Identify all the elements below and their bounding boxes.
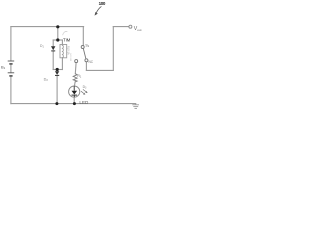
diode D2	[55, 71, 59, 75]
Vout terminal circle	[129, 25, 132, 28]
junction dot J1	[56, 25, 59, 28]
wire branch y40	[53, 39, 62, 41]
wire right loop bottom	[86, 69, 113, 71]
switch NO contact	[75, 60, 78, 63]
svg-text:D1: D1	[40, 44, 44, 49]
wire LED to bottom rail	[73, 97, 75, 103]
switch NC contact	[85, 59, 88, 62]
wire coil bottom lead	[61, 58, 63, 70]
switch S1 arm	[83, 49, 86, 59]
wire NO contact to R1	[74, 63, 77, 74]
wire D1 anode	[52, 40, 54, 46]
resistor R1	[73, 74, 77, 82]
junction dot J5	[73, 102, 76, 105]
ground	[132, 104, 139, 109]
switch S1 common terminal	[81, 46, 84, 49]
wire left rail upper	[10, 27, 12, 61]
wire D1 cathode down	[52, 51, 54, 70]
wire right loop vertical	[112, 27, 114, 71]
TIM leader curve	[63, 31, 68, 35]
wire NC contact down	[85, 62, 87, 71]
wire R1 to LED	[73, 82, 76, 86]
svg-text:S1: S1	[85, 43, 89, 48]
svg-text:Vout: Vout	[134, 26, 142, 32]
LED emission arrows	[81, 89, 87, 94]
junction dot J4	[55, 102, 58, 105]
wire branch y69.5	[53, 69, 62, 71]
svg-text:100: 100	[99, 1, 106, 6]
wire switch common from top rail	[82, 27, 84, 45]
wire D2 cathode to bottom rail	[56, 76, 58, 104]
svg-text:D3: D3	[83, 85, 87, 90]
svg-text:NC: NC	[89, 60, 94, 64]
svg-text:LED: LED	[79, 100, 89, 105]
battery B1 plates	[8, 61, 15, 76]
wire top rail	[11, 26, 84, 28]
diode D1	[51, 46, 55, 51]
LED D3 diode	[72, 86, 78, 97]
LED D3 circle	[69, 86, 80, 97]
wire left rail lower	[10, 76, 12, 104]
wire coil top lead	[61, 40, 63, 45]
junction dot J3	[56, 68, 59, 71]
wire D2 anode	[56, 70, 58, 72]
svg-text:R1: R1	[77, 74, 81, 79]
wire between battery cells	[10, 64, 12, 73]
svg-text:D2: D2	[44, 77, 49, 82]
svg-text:B1: B1	[1, 65, 6, 71]
junction dot J2	[56, 38, 59, 41]
wire to Vout terminal	[113, 26, 129, 28]
reference arrow	[95, 6, 101, 14]
relay coil box TIM	[60, 45, 67, 58]
wire J1 to J2	[57, 27, 59, 40]
svg-text:NO.245: NO.245	[69, 54, 71, 62]
wire bottom rail	[11, 103, 136, 105]
svg-text:TIM: TIM	[63, 38, 71, 43]
